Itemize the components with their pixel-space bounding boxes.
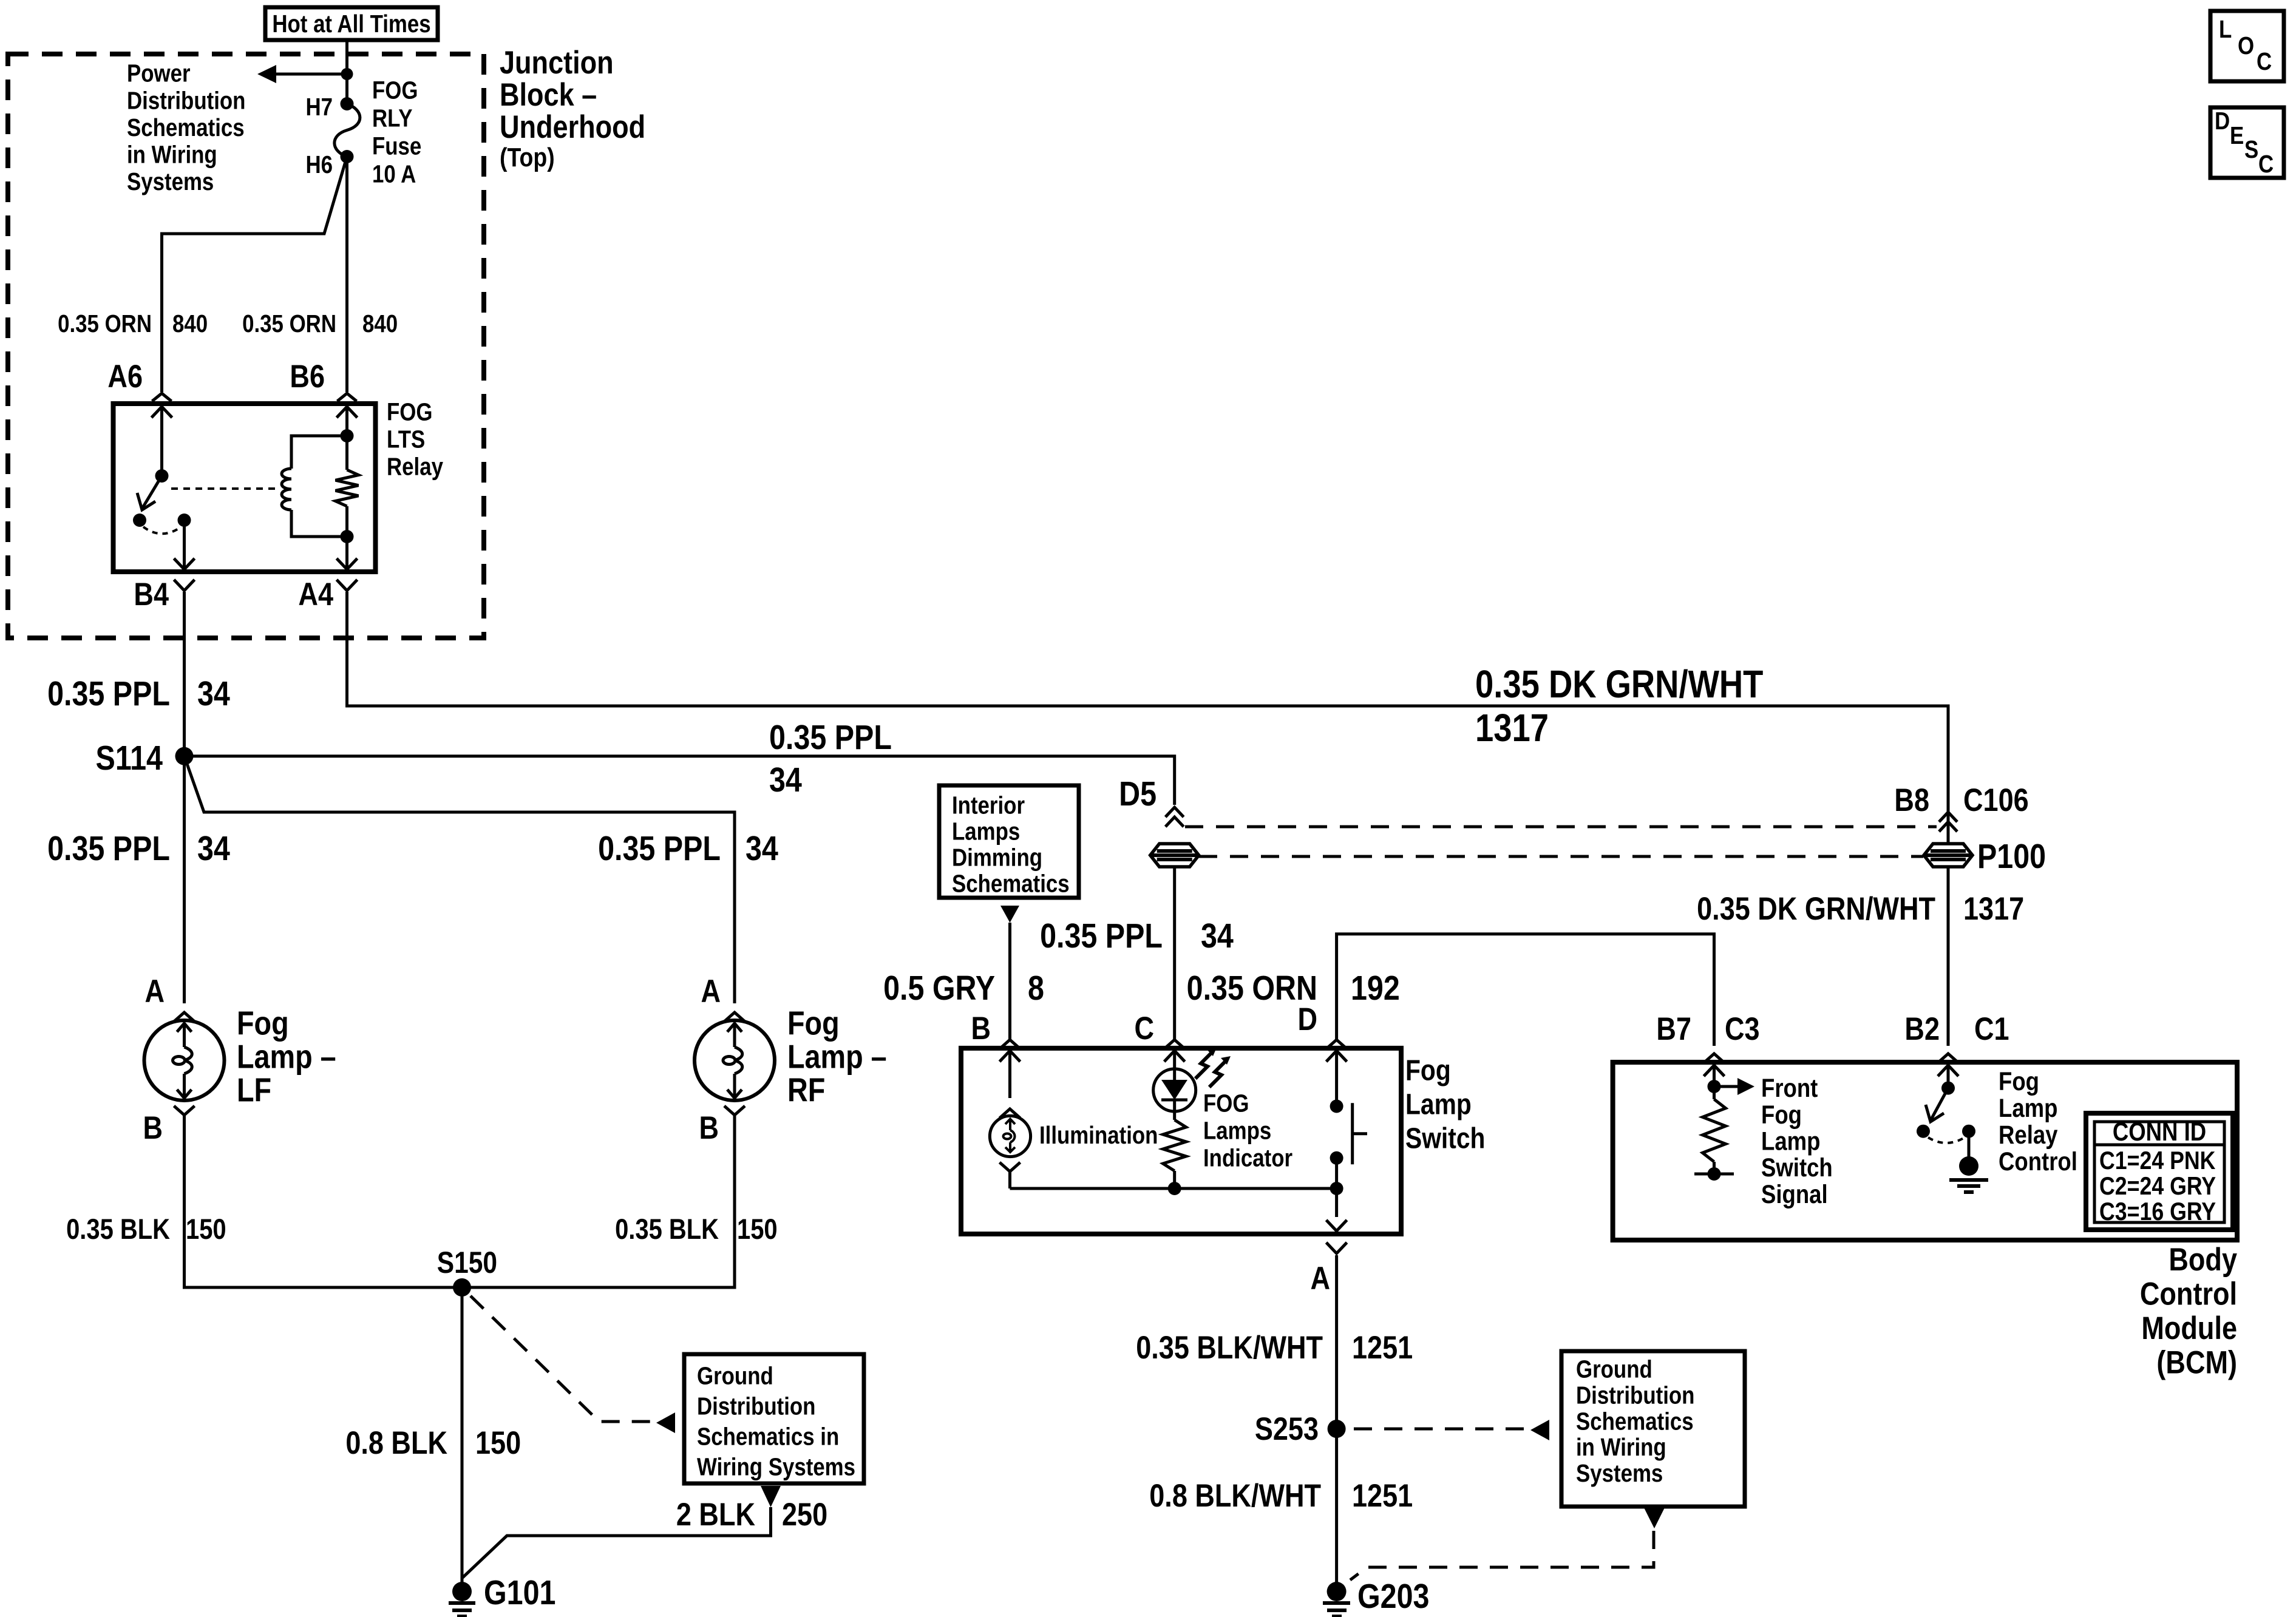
label: B6 [290,359,325,395]
svg-text:B8: B8 [1894,782,1929,818]
svg-text:150: 150 [186,1214,226,1246]
pass-through: P100 (left) [1150,844,1199,867]
svg-text:H7: H7 [305,93,333,121]
svg-text:Illumination: Illumination [1039,1122,1158,1149]
label: C (switch) [1134,1011,1154,1046]
BCM resistor terminal [1694,1167,1734,1181]
label: 0.35 DK GRN/WHT 1317 (lower) [1697,891,2024,927]
svg-text:Body: Body [2169,1242,2237,1278]
svg-text:250: 250 [782,1497,827,1533]
BCM relay driver pivot [1941,1082,1955,1095]
connector: B8 double chevron [1939,812,1957,832]
svg-text:0.35 PPL: 0.35 PPL [769,718,892,757]
svg-text:S: S [2244,136,2258,163]
svg-text:34: 34 [769,761,802,799]
switch illumination bulb [990,1109,1030,1171]
label: H6 [305,151,333,178]
svg-text:Relay: Relay [1999,1120,2058,1149]
label: 0.35 PPL 34 (LF wire) [47,829,230,868]
connector: D5 double chevron [1166,807,1184,827]
wire: fuse H6 to relay pin B6 [345,157,348,392]
svg-text:Fog: Fog [237,1005,289,1042]
svg-text:E: E [2230,122,2244,149]
svg-text:Lamps: Lamps [1203,1117,1271,1145]
svg-text:Fog: Fog [1405,1055,1451,1087]
relay coil [282,429,354,543]
label: Fog Lamp Relay Control [1999,1067,2077,1176]
LED emission arrows [1195,1048,1231,1087]
svg-text:B: B [143,1110,163,1146]
label: interior lamps dimming text [952,792,1070,898]
svg-text:C3=16 GRY: C3=16 GRY [2099,1198,2216,1225]
wire: S114 to fog lamp RF [185,756,735,1003]
switch rail to pin A [1326,1188,1347,1231]
svg-text:840: 840 [362,310,398,337]
svg-text:P100: P100 [1977,837,2046,876]
label: 0.35 PPL 34 (C wire) [1040,917,1234,955]
svg-text:Underhood: Underhood [500,109,645,145]
triangle: ground distribution pointer (right) [1644,1508,1665,1528]
BCM driver pole left [1917,1125,1930,1138]
svg-text:B6: B6 [290,359,325,395]
wire: D corner feed to BCM B7 [1337,934,1714,1046]
svg-text:Signal: Signal [1761,1180,1828,1209]
svg-text:Systems: Systems [1576,1460,1663,1487]
svg-text:Control: Control [1999,1147,2077,1176]
label: G101 [484,1573,555,1612]
box: Hot at All Times [265,7,438,40]
fog lamp LF [144,1012,225,1115]
switch actuator bar [1353,1103,1367,1164]
label: 0.35 ORN 840 (left) [58,310,208,337]
connector: C chevron (switch) [1164,1040,1185,1049]
svg-text:0.35 ORN: 0.35 ORN [1187,969,1317,1008]
triangle: ground distribution pointer (left) [761,1486,781,1507]
svg-text:A: A [701,974,721,1009]
label: 0.35 BLK 150 (RF) [615,1214,778,1246]
label: C1=24 PNK [2099,1147,2215,1175]
svg-text:0.35 PPL: 0.35 PPL [47,674,170,713]
svg-text:Hot at All Times: Hot at All Times [272,10,430,38]
svg-text:Schematics: Schematics [1576,1408,1694,1436]
label: CONN ID [2113,1117,2206,1146]
switch contact lower [1330,1151,1343,1165]
svg-text:G101: G101 [484,1573,555,1612]
svg-text:FOG: FOG [1203,1090,1249,1117]
svg-text:Schematics: Schematics [952,870,1070,898]
pass-through: P100 (right) [1924,844,1972,867]
svg-text:Dimming: Dimming [952,844,1042,872]
svg-text:Indicator: Indicator [1203,1145,1292,1172]
svg-text:Switch: Switch [1405,1123,1485,1155]
label: Junction Block - Underhood (Top) [500,45,645,172]
connector: B6 chevron [338,393,357,401]
wire: P100 to switch pin C [1173,867,1176,1039]
label: 2 BLK 250 [676,1497,827,1533]
svg-text:Ground: Ground [697,1363,773,1390]
label: 0.35 ORN 840 (right) [242,310,398,337]
svg-text:C3: C3 [1725,1011,1760,1047]
svg-text:0.35 BLK: 0.35 BLK [615,1214,719,1246]
label: A (LF) [144,974,165,1009]
label: FOG LTS Relay [387,399,443,481]
svg-text:B: B [971,1011,991,1046]
svg-text:in Wiring: in Wiring [127,141,217,169]
switch contact to rail [1330,1158,1343,1195]
BCM pin B2 arrow [1938,1065,1958,1088]
wire: P100 to BCM pin B2 [1947,867,1950,1046]
connector: A4 chevron [337,580,358,591]
label: Fog Lamp Switch [1405,1055,1485,1155]
fuse: FOG RLY Fuse 10 A [335,97,360,163]
svg-text:8: 8 [1028,969,1044,1008]
relay switch pivot [155,469,169,483]
ground: G101 [449,1582,475,1616]
svg-text:0.35 PPL: 0.35 PPL [1040,917,1163,955]
label: 0.8 BLK/WHT 1251 [1149,1478,1413,1514]
svg-text:(BCM): (BCM) [2156,1344,2237,1380]
svg-text:L: L [2219,16,2232,43]
svg-text:C: C [1134,1011,1154,1046]
BCM driver pole right [1962,1125,1975,1138]
svg-text:0.35 DK GRN/WHT: 0.35 DK GRN/WHT [1475,662,1763,706]
label: A4 [298,577,333,612]
label: D5 [1119,775,1156,813]
ground: G203 [1323,1582,1350,1616]
svg-text:LTS: LTS [387,426,425,453]
BCM front fog lamp switch signal node [1708,1078,1755,1095]
box: Interior Lamps Dimming Schematics [939,785,1079,898]
connector: D chevron (switch) [1326,1040,1347,1049]
label: Fog Lamp - LF [237,1005,336,1108]
connector: B chevron (switch) [1000,1040,1021,1049]
svg-text:Systems: Systems [127,169,214,196]
wire: RF ground to S150 [462,1115,735,1287]
label: 0.35 ORN 192 [1187,969,1400,1008]
label: FOG RLY Fuse 10 A [372,77,421,188]
svg-text:10 A: 10 A [372,161,416,188]
fog lamp RF [695,1012,775,1115]
dashed line: P100 connector plane [1199,855,1923,858]
switch LED resistor [1163,1111,1186,1195]
label: B2 C1 [1904,1011,2009,1047]
svg-text:Distribution: Distribution [697,1393,815,1420]
svg-text:Power: Power [127,60,191,87]
svg-text:0.35 BLK: 0.35 BLK [66,1214,170,1246]
wire: S150 to G101 [461,1287,464,1582]
BCM driver ground [1949,1131,1988,1192]
svg-text:Front: Front [1761,1074,1818,1102]
BCM pull-up resistor [1703,1086,1726,1174]
svg-text:Fog: Fog [1999,1067,2039,1096]
svg-text:C1: C1 [1974,1011,2009,1047]
svg-text:840: 840 [172,310,208,337]
label: A (switch) [1310,1261,1330,1297]
wire: A4 to C106 B8 (horizontal run) [347,592,1949,845]
switch illumination to common rail [1010,1171,1337,1188]
CONN ID table [2086,1113,2233,1230]
svg-text:C106: C106 [1963,782,2029,818]
svg-text:B2: B2 [1904,1011,1940,1047]
relay pin A6 arrow [152,407,172,476]
wire: LF ground to S150 [185,1115,463,1287]
svg-text:1251: 1251 [1352,1478,1413,1514]
svg-text:34: 34 [197,829,230,868]
svg-text:A4: A4 [298,577,333,612]
label: B (RF) [699,1110,719,1146]
svg-text:Junction: Junction [500,45,614,81]
dashed reference: G203 hook [1350,1531,1654,1580]
svg-text:Schematics in: Schematics in [697,1423,839,1451]
label: Body Control Module (BCM) [2140,1242,2238,1381]
dashed reference: S253 to ground distribution box [1354,1420,1549,1440]
svg-text:C1=24 PNK: C1=24 PNK [2099,1147,2215,1175]
wire: fuse H6 branch to relay pin A6 [162,157,347,392]
label: 0.35 BLK/WHT 1251 [1136,1330,1413,1366]
relay switch arm [137,476,162,510]
svg-text:Fuse: Fuse [372,133,421,160]
label: G203 [1357,1577,1429,1616]
svg-text:Lamp –: Lamp – [787,1038,887,1075]
svg-text:(Top): (Top) [500,142,555,172]
box: Ground Distribution Schematics in Wiring Systems (right) [1561,1351,1745,1507]
BCM box: Body Control Module [1613,1062,2237,1240]
wire: B4 to S114 [183,592,186,756]
svg-text:S150: S150 [437,1246,497,1280]
label: 0.35 PPL (S114-D5 wire) [769,718,892,757]
svg-text:0.8 BLK: 0.8 BLK [345,1425,447,1461]
svg-text:Lamps: Lamps [952,818,1020,846]
connector: A6 chevron [152,393,172,401]
wire: 2 BLK 250 to G101 [462,1507,771,1578]
label: Illumination [1039,1122,1158,1149]
label: ground distribution text (right) [1576,1356,1694,1487]
splice: S114 [175,747,194,765]
relay contact pole left [133,514,146,527]
svg-text:Lamp: Lamp [1999,1094,2057,1122]
svg-text:Ground: Ground [1576,1356,1652,1383]
relay contact dashed arc [143,527,180,534]
label: S253 [1255,1411,1319,1447]
svg-text:in Wiring: in Wiring [1576,1434,1666,1462]
relay output wire to A4 [337,537,358,569]
svg-text:B7: B7 [1656,1011,1691,1047]
label: 0.8 BLK 150 [345,1425,521,1461]
svg-text:G203: G203 [1357,1577,1429,1616]
svg-text:0.35 BLK/WHT: 0.35 BLK/WHT [1136,1330,1323,1366]
switch LED branch pin C arrow [1164,1051,1185,1069]
svg-text:C: C [2257,48,2272,75]
switch illumination branch pin B arrow [1000,1051,1021,1098]
svg-text:Lamp: Lamp [1761,1127,1820,1156]
svg-text:Lamp: Lamp [1405,1089,1472,1121]
svg-text:A: A [1310,1261,1330,1297]
dashed line: C106 connector plane [1185,825,1937,829]
label: A (RF) [701,974,721,1009]
svg-text:Schematics: Schematics [127,114,245,141]
label: B (switch) [971,1011,991,1046]
label: Front Fog Lamp Switch Signal [1761,1074,1833,1209]
svg-text:192: 192 [1351,969,1400,1008]
relay contact pole right [178,514,191,527]
svg-text:Module: Module [2141,1310,2237,1346]
svg-text:RLY: RLY [372,105,412,132]
BCM relay driver arm [1926,1088,1948,1122]
switch contact upper [1330,1100,1343,1113]
BCM pin B7 arrow [1704,1065,1725,1086]
svg-text:B4: B4 [134,577,169,612]
relay output wire to B4 [174,520,195,569]
svg-text:Switch: Switch [1761,1153,1833,1182]
splice: S150 [453,1278,471,1297]
svg-text:FOG: FOG [387,399,432,426]
svg-text:1251: 1251 [1352,1330,1413,1366]
svg-text:D5: D5 [1119,775,1156,813]
svg-text:H6: H6 [305,151,333,178]
svg-text:0.5 GRY: 0.5 GRY [883,969,995,1008]
svg-text:Control: Control [2140,1276,2237,1312]
connector: B2 chevron (BCM) [1938,1054,1958,1063]
relay switch linkage dashed [171,487,280,490]
svg-text:34: 34 [746,829,778,868]
svg-text:Wiring Systems: Wiring Systems [697,1454,855,1481]
label: 0.5 GRY 8 [883,969,1044,1008]
svg-text:S114: S114 [96,739,163,778]
switch contact branch pin D arrow [1326,1051,1347,1107]
DESC box [2210,107,2284,178]
relay pin B6 arrow [337,407,358,436]
label: B4 [134,577,169,612]
svg-text:1317: 1317 [1963,891,2024,927]
box: Ground Distribution Schematics in Wiring Systems (left) [684,1354,864,1483]
svg-text:O: O [2238,32,2254,59]
relay resistor [336,436,359,537]
connector: A chevron (switch) [1326,1242,1347,1253]
label: ground distribution text (left) [697,1363,855,1481]
svg-text:0.35 ORN: 0.35 ORN [58,310,152,337]
label: B (LF) [143,1110,163,1146]
label: A6 [107,359,143,395]
label: C3=16 GRY [2099,1198,2216,1225]
svg-text:C2=24 GRY: C2=24 GRY [2099,1172,2216,1200]
junction block dashed box [8,54,484,638]
label: C2=24 GRY [2099,1172,2216,1200]
label: S150 [437,1246,497,1280]
svg-text:Relay: Relay [387,453,443,481]
svg-text:S253: S253 [1255,1411,1319,1447]
arrow: to power distribution schematics [257,65,353,83]
dashed reference: S150 to ground distribution box [470,1296,675,1433]
label: 0.35 PPL 34 (RF wire) [598,829,778,868]
svg-text:Fog: Fog [1761,1100,1802,1129]
label: 0.35 DK GRN/WHT (top) [1475,662,1763,706]
svg-text:LF: LF [237,1071,271,1108]
label: Power Distribution Schematics in Wiring Systems [127,60,245,196]
label: S114 [96,739,163,778]
svg-text:Interior: Interior [952,792,1025,819]
label: FOG Lamps Indicator [1203,1090,1292,1172]
svg-text:0.35 DK GRN/WHT: 0.35 DK GRN/WHT [1697,891,1935,927]
svg-text:150: 150 [475,1425,521,1461]
svg-text:0.8 BLK/WHT: 0.8 BLK/WHT [1149,1478,1321,1514]
label: B8 C106 [1894,782,2028,818]
relay box: FOG LTS Relay [114,404,376,572]
wire: S114 to fog lamp LF [183,756,186,1003]
svg-text:C: C [2258,151,2274,178]
svg-text:CONN ID: CONN ID [2113,1117,2206,1146]
label: P100 [1977,837,2046,876]
connector: B7 chevron (BCM) [1704,1054,1725,1063]
LOC box [2210,11,2284,81]
svg-text:0.35 ORN: 0.35 ORN [242,310,336,337]
svg-text:0.35 PPL: 0.35 PPL [47,829,170,868]
fog lamp switch box [961,1048,1401,1234]
svg-text:34: 34 [197,674,230,713]
svg-text:Lamp –: Lamp – [237,1038,336,1075]
label: Fog Lamp - RF [787,1005,887,1108]
svg-text:RF: RF [787,1071,825,1108]
svg-text:A6: A6 [107,359,143,395]
connector: B4 chevron [174,580,195,591]
svg-text:D: D [2215,107,2230,135]
wire: battery feed stem from Hot at All Times [345,40,348,104]
label: 0.35 PPL 34 (B4 wire) [47,674,230,713]
svg-text:2 BLK: 2 BLK [676,1497,756,1533]
label: 1317 (top) [1475,706,1549,750]
svg-text:1317: 1317 [1475,706,1549,750]
label: B7 C3 [1656,1011,1759,1047]
label: D (switch) [1297,1002,1317,1037]
switch LED: FOG lamps indicator [1153,1069,1196,1111]
svg-text:Distribution: Distribution [127,87,245,115]
svg-text:Fog: Fog [787,1005,840,1042]
label: 0.35 BLK 150 (LF) [66,1214,226,1246]
wire: dimming feed to switch pin B [1008,923,1011,1039]
svg-text:0.35 PPL: 0.35 PPL [598,829,721,868]
svg-text:Distribution: Distribution [1576,1382,1694,1409]
svg-text:A: A [144,974,165,1009]
svg-text:150: 150 [737,1214,778,1246]
wire: switch pin A to S253 [1335,1255,1338,1582]
svg-text:Block –: Block – [500,77,597,113]
svg-text:B: B [699,1110,719,1146]
splice: S253 [1328,1420,1346,1438]
wire: S114 to fog lamp switch pin C [185,756,1175,805]
svg-text:FOG: FOG [372,77,418,104]
triangle: interior lamps pointer [1000,906,1019,923]
BCM driver dashed arc [1928,1137,1965,1143]
label: 34 (S114-D5 wire) [769,761,802,799]
svg-text:34: 34 [1201,917,1234,955]
label: H7 [305,93,333,121]
